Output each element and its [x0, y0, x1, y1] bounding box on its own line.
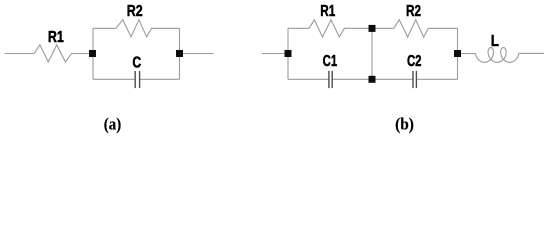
svg-text:C2: C2 [407, 53, 422, 70]
svg-text:C: C [132, 55, 141, 72]
svg-text:R2: R2 [127, 3, 143, 20]
svg-text:C1: C1 [323, 53, 338, 70]
svg-text:(b): (b) [395, 115, 414, 134]
svg-text:R2: R2 [406, 3, 421, 20]
svg-text:(a): (a) [104, 115, 121, 134]
svg-text:R1: R1 [48, 29, 64, 46]
svg-text:R1: R1 [320, 3, 335, 20]
svg-text:L: L [491, 33, 499, 50]
